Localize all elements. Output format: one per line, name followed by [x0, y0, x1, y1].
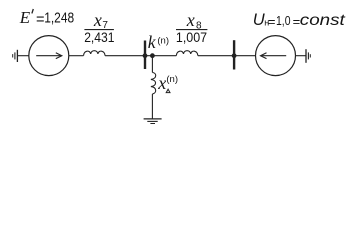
label x8 [186, 10, 202, 31]
svg-text:const: const [300, 12, 346, 29]
ground G3 (bottom of branch) [144, 119, 162, 124]
inductor xDelta(n) (vertical coil) [151, 72, 156, 94]
wire W7 (source U to right ground) [296, 55, 306, 57]
value 1,007 (x8) [176, 29, 207, 45]
label E' = 1,248 [19, 8, 74, 28]
label x7 [93, 10, 109, 31]
fraction line for x8 value [176, 29, 207, 31]
svg-text:1,007: 1,007 [176, 29, 207, 45]
svg-text:=: = [268, 14, 276, 29]
branch wire from inductor xDelta to ground G3 [151, 94, 153, 119]
svg-text:k: k [148, 32, 157, 52]
svg-text:x: x [157, 73, 166, 93]
fault location bar k(n) [144, 41, 146, 70]
fraction line for x7 value [84, 29, 114, 31]
value 2,431 (x7) [84, 29, 114, 45]
source E' (EMF source circle) [29, 36, 69, 76]
label U = 1,0 = const [253, 11, 346, 29]
svg-text:x: x [186, 10, 195, 30]
wire W4 (bar k to branch tee node) [145, 55, 176, 57]
label k(n) [148, 32, 169, 52]
svg-text:2,431: 2,431 [84, 29, 114, 45]
label xDelta(n) [157, 73, 178, 93]
junction dot at branch tee [150, 53, 155, 58]
arrow inside source E' [36, 53, 62, 59]
prime mark of E' [32, 9, 33, 13]
ground G1 (left, rotated facing left) [13, 50, 18, 62]
junction dot on bar k [143, 53, 148, 58]
svg-text:(n): (n) [166, 74, 178, 85]
system bar (right) [233, 40, 235, 69]
source U (load voltage source circle) [256, 36, 296, 76]
ground G2 (right, rotated facing right) [306, 49, 310, 63]
inductor x7 (coil) [84, 51, 106, 56]
wire W1 (ground G1 to source E') [17, 55, 29, 57]
svg-text:(n): (n) [157, 35, 169, 46]
svg-text:1,248: 1,248 [44, 10, 74, 27]
wire W5 (inductor x8 to right bar) [198, 55, 234, 57]
arrow inside source U (pointing left) [261, 53, 287, 59]
wire W3 (inductor x7 to fault bar k) [105, 55, 145, 57]
svg-text:U: U [253, 11, 265, 29]
inductor x8 (coil) [176, 51, 198, 56]
svg-text:x: x [93, 10, 102, 30]
junction dot on right bar [232, 53, 237, 58]
wire W6 (right bar to source U) [234, 55, 256, 57]
wire W2 (source E' to inductor x7) [69, 55, 84, 57]
svg-text:E: E [19, 8, 31, 27]
branch wire down from tee to inductor xDelta [151, 56, 153, 73]
svg-text:1,0: 1,0 [276, 13, 291, 28]
